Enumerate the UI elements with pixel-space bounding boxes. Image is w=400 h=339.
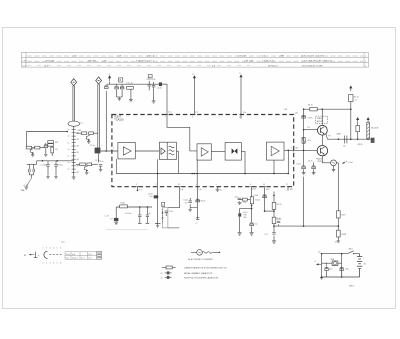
TA arrow input (316, 263, 319, 265)
connector J2 shielded pair (97, 84, 99, 148)
bottom pin tick x251.6 (250, 186, 252, 188)
capacitor C103 (153, 82, 155, 85)
pin 11 tick (240, 114, 242, 116)
resistor R126 on branch (243, 198, 248, 201)
equalizer block A2 (159, 142, 176, 159)
capacitor C141 (272, 233, 275, 235)
wire A1 to A2 (135, 150, 159, 152)
output amp block A5 (266, 142, 284, 160)
svg-text:1.uv: 1.uv (195, 112, 198, 114)
capacitor C205 (45, 143, 47, 145)
wire drop to C121 (115, 207, 117, 218)
switch TA-4 blade (347, 251, 353, 254)
test point B box (119, 78, 123, 82)
svg-text:+R.n: +R.n (235, 196, 239, 198)
wire base TS1 (304, 129, 318, 131)
svg-text:ta-9: ta-9 (61, 241, 64, 244)
branch wire w1 (239, 199, 250, 201)
wire pin6 drop (251, 187, 253, 223)
svg-text:4?: 4? (335, 241, 337, 243)
wire A2 bottom to pin 2 (157, 159, 159, 187)
svg-text:2R-2.5uH: 2R-2.5uH (371, 128, 379, 130)
wire pin4 drop (196, 187, 198, 220)
svg-text:C.R75: C.R75 (308, 118, 313, 120)
svg-text:C4.7u: C4.7u (296, 164, 301, 166)
svg-text:10: 10 (263, 184, 265, 186)
svg-text:4.5 +15: 4.5 +15 (126, 82, 132, 84)
connector pinout digits top (43, 248, 62, 250)
svg-text:R1.25: R1.25 (255, 200, 260, 202)
L.Out arrow (342, 162, 345, 164)
svg-text:4u: 4u (149, 213, 151, 215)
bottom pin tick x179.4 (178, 186, 180, 188)
svg-text:100u: 100u (329, 269, 333, 271)
wire output node down (337, 163, 339, 211)
svg-text:1.1u: 1.1u (168, 112, 172, 114)
ground TMA (31, 175, 33, 178)
tracking adjust dashed label box (316, 116, 328, 123)
fold line (106, 229, 148, 231)
connector J1 diamond (71, 79, 77, 86)
wire TS1 collector up (321, 109, 323, 125)
svg-text:A: A (24, 253, 26, 257)
svg-text:+u: +u (239, 73, 241, 75)
capacitor C175 polarized (302, 115, 306, 118)
pin 1 tick (111, 150, 113, 152)
svg-text:7.1u: 7.1u (243, 112, 247, 114)
capacitor C127 (189, 201, 192, 203)
svg-text:2u: 2u (192, 74, 194, 76)
wire bias rail (37, 160, 74, 162)
svg-text:C1.44: C1.44 (254, 195, 258, 197)
test point C box (148, 75, 152, 78)
ground below C103 (152, 101, 156, 103)
svg-text:4.8 R8.25.27: 4.8 R8.25.27 (262, 61, 275, 63)
capacitor C123 polarized (154, 195, 158, 198)
svg-text:1u: 1u (68, 169, 70, 171)
wire top cluster down-feed (105, 91, 107, 151)
wire diode to pin 7 drop (162, 84, 167, 114)
svg-text:3: 3 (50, 248, 51, 250)
parts table row 2 text (27, 60, 363, 62)
svg-text:C+1.50u: C+1.50u (125, 213, 131, 215)
svg-text:3: 3 (50, 263, 51, 265)
capacitor C161 elco (326, 263, 328, 267)
switch letter box R (162, 202, 165, 206)
cable grommet ellipse (68, 121, 80, 126)
svg-text:2.7x: 2.7x (307, 127, 310, 129)
svg-text:C102 C103: C102 C103 (146, 79, 155, 81)
resistor R213 (89, 132, 94, 135)
diode GR101 (159, 82, 162, 86)
svg-text:TCA150: TCA150 (114, 119, 124, 122)
pin 9 tick (193, 114, 195, 116)
wire A2 to IC top (193, 81, 195, 114)
ground battery circuit (320, 278, 323, 280)
svg-text:4: 4 (53, 263, 54, 265)
supply arrow A4 (350, 86, 352, 91)
resistor R17W (336, 230, 340, 237)
svg-text:1.0: 1.0 (80, 122, 82, 124)
svg-text:+7: +7 (195, 223, 197, 225)
resistor R171 (336, 211, 340, 218)
svg-text:1: 1 (43, 263, 44, 265)
svg-text:1: 1 (43, 248, 44, 250)
svg-text:u.n: u.n (355, 100, 357, 102)
transistor TS202 (84, 166, 88, 171)
svg-text:2: 2 (156, 184, 157, 186)
svg-text:2: 2 (46, 248, 47, 250)
resistor R205 (48, 141, 54, 144)
svg-text:13: 13 (178, 184, 180, 186)
svg-text:4R2: 4R2 (266, 189, 269, 191)
svg-text:FLAT FOIL POLYESTER CAPACITOR: FLAT FOIL POLYESTER CAPACITOR (184, 276, 219, 279)
svg-text:10u: 10u (343, 145, 346, 147)
wire top cluster bus (106, 83, 166, 85)
svg-text:C1.4u: C1.4u (157, 88, 162, 90)
resistor R207 (51, 145, 53, 148)
electronic counter pickup circle (331, 160, 337, 166)
capacitor C477 elco A (303, 164, 305, 167)
capacitor C124 (165, 211, 168, 213)
wire pin11 stub (240, 115, 242, 119)
svg-text:C4R3: C4R3 (336, 134, 340, 136)
svg-text:1R1: 1R1 (290, 189, 293, 191)
svg-text:7.8: 7.8 (110, 219, 112, 221)
wire A5 output to pin8 (284, 149, 294, 151)
supply arrow A5 (357, 118, 359, 122)
ground below C107 C108 (117, 96, 123, 98)
cap bottom bars (138, 222, 142, 224)
wire bias column lower (303, 177, 305, 227)
svg-text:4.5R2.4R1 1.75 1.2: 4.5R2.4R1 1.75 1.2 (136, 61, 155, 63)
svg-text:12W C: 12W C (349, 285, 355, 287)
svg-text:7.4: 7.4 (139, 189, 141, 191)
capacitor C203 pair (27, 163, 37, 165)
battery B1 (357, 254, 362, 277)
svg-text:(R6.3): (R6.3) (358, 144, 363, 146)
connector pin table (65, 252, 97, 259)
svg-text:6: 6 (60, 263, 61, 265)
svg-text:2: 2 (46, 263, 47, 265)
svg-text:1+.75: 1+.75 (105, 216, 109, 218)
wire pin10 drop (264, 187, 266, 211)
svg-text:u.84 u.5: u.84 u.5 (147, 55, 155, 57)
wire link 264-274 (265, 210, 274, 212)
svg-text:2u.2u.2: 2u.2u.2 (72, 258, 78, 260)
capacitor C4R3 series (345, 136, 347, 144)
wire C136 to ground (239, 217, 241, 233)
wire R171 to node (337, 218, 339, 230)
wire C101 to pin 1 (100, 150, 118, 152)
svg-text:1.7.1: 1.7.1 (81, 258, 85, 260)
svg-text:CARBON RESISTOR 5% E6 SERIES: CARBON RESISTOR 5% E6 SERIES CR25 1% (184, 267, 227, 270)
wire TS1 emitter diagonal (326, 134, 328, 139)
capacitor C138 (263, 195, 267, 198)
capacitor C162 elco (340, 268, 344, 271)
pin5 ground (217, 187, 219, 189)
ground TS202 (85, 171, 87, 173)
connector pinout digits bottom (43, 263, 62, 265)
svg-text:1.4x: 1.4x (198, 189, 201, 191)
svg-text:1u: 1u (68, 136, 70, 138)
svg-text:C1.4.2: C1.4.2 (243, 212, 248, 214)
capacitor C101 polarized input (95, 148, 101, 154)
resistor R212 (82, 132, 87, 135)
svg-text:5: 5 (57, 248, 58, 250)
svg-text:2|8: 2|8 (295, 147, 297, 149)
transistor TS1 (318, 125, 328, 135)
resistor R204 (35, 146, 40, 149)
capacitor C137 polarized elco (250, 223, 254, 226)
svg-text:1.2F: 1.2F (22, 61, 27, 63)
battery circuit bottom wire (322, 276, 360, 278)
capacitor C140 (277, 221, 280, 223)
svg-text:1.88 1.4R: 1.88 1.4R (244, 61, 254, 63)
resistor R120 (120, 205, 128, 208)
svg-text:C1.1u: C1.1u (90, 145, 95, 147)
capacitor C128 (196, 218, 199, 220)
transistor TS2 (317, 146, 327, 156)
svg-text:1u: 1u (68, 129, 70, 131)
resistor R63 blob (371, 138, 375, 143)
svg-text:u4R3.4R6: u4R3.4R6 (45, 61, 55, 63)
supply arrow A2 (193, 76, 195, 81)
svg-text:7: 7 (165, 117, 166, 119)
wire motor to junction (338, 262, 342, 264)
wire into TS203 stage (76, 132, 81, 134)
bottom pin tick x217.5 (216, 186, 218, 188)
capacitor C131 (139, 207, 141, 215)
ground below C121 (115, 220, 117, 223)
wire pin13 drop (168, 187, 180, 208)
ground at TS201 emitter (31, 153, 33, 154)
svg-text:4R7.25.R8 5R.77.2R8: 4R7.25.R8 5R.77.2R8 (302, 65, 323, 67)
capacitor C477 elco B (313, 162, 315, 166)
svg-text:1.03: 1.03 (284, 109, 288, 111)
svg-text:TA-4: TA-4 (349, 247, 353, 250)
wire A4 output drop (241, 151, 245, 173)
capacitor C216 (55, 161, 57, 164)
diode GR640 (302, 138, 305, 144)
capacitor C106 (105, 86, 109, 89)
svg-text:C1.50u: C1.50u (57, 164, 63, 166)
svg-text:1u: 1u (68, 142, 70, 144)
resistor R133 (272, 202, 276, 209)
ground below counter circle (333, 166, 335, 170)
limiter block A4 (225, 143, 241, 161)
svg-text:1.3x: 1.3x (180, 189, 183, 191)
ground below R17W (337, 237, 339, 241)
svg-text:R17W: R17W (341, 234, 346, 236)
resistor R211 (87, 163, 92, 166)
ground below switch ladder (73, 176, 75, 177)
wire switch to battery (354, 253, 360, 255)
svg-text:+u: +u (108, 74, 110, 76)
resistor R180 (356, 126, 360, 132)
svg-text:u4.7 u2.5 u7.5 +4.1 4.85: u4.7 u2.5 u7.5 +4.1 4.85 (301, 55, 324, 57)
connector J1 shielded pair (72, 86, 74, 121)
supply arrow A1 (109, 76, 111, 82)
wire A3 to A4 (211, 151, 225, 153)
wire to TS202 stage (76, 163, 79, 165)
wire pin2 drop (157, 187, 159, 224)
diode arrow on pin6 line (251, 205, 253, 207)
svg-text:P6: P6 (328, 135, 330, 137)
output rail wire (328, 138, 372, 140)
svg-text:5: 5 (57, 263, 58, 265)
capacitor C132 (146, 207, 148, 215)
inductor L1 hatched (367, 120, 369, 123)
capacitor C107 (116, 84, 118, 85)
wire R172 to node (273, 224, 275, 233)
legend resistor symbol (162, 267, 166, 269)
svg-text:R1.4x: R1.4x (201, 200, 206, 202)
amplifier block A3 (197, 144, 211, 160)
svg-text:1.2u: 1.2u (88, 254, 91, 256)
supply rail wire (304, 108, 351, 110)
svg-text:4R7: 4R7 (55, 142, 58, 144)
capacitor C108 (121, 84, 123, 85)
transistor TS201 (30, 149, 33, 154)
svg-text:2.8R: 2.8R (280, 55, 285, 57)
switch SK2 pole (162, 209, 164, 224)
svg-text:2.2: 2.2 (318, 252, 320, 254)
parts table border (22, 53, 369, 68)
supply arrow A6 (367, 118, 369, 122)
svg-text:1.2R.2: 1.2R.2 (251, 189, 256, 191)
transistor TS203 (86, 135, 90, 140)
bottom pin tick x264.6 (263, 186, 265, 188)
svg-text:0.7u: 0.7u (100, 161, 104, 163)
wire A2 output drop (176, 150, 178, 152)
wire A3 to IC top (240, 80, 242, 115)
svg-text:L.Out: L.Out (348, 161, 353, 164)
capacitor C136 polarized (238, 213, 241, 216)
preamp block A1 (118, 143, 135, 159)
svg-text:1.45 2.47: 1.45 2.47 (238, 55, 248, 57)
branch to C136 (240, 209, 252, 214)
resistor R206 (48, 144, 54, 147)
wire TS1-TS2 link (321, 135, 323, 145)
svg-text:6: 6 (250, 184, 251, 186)
svg-text:R.n: R.n (243, 202, 246, 204)
svg-text:+1.7x: +1.7x (307, 140, 311, 142)
svg-text:R1.75: R1.75 (354, 96, 359, 98)
svg-text:1: 1 (113, 148, 114, 150)
long wire node to R171 (274, 225, 338, 227)
resistor R106 (127, 86, 134, 89)
svg-text:12: 12 (286, 184, 288, 186)
svg-text:8: 8 (291, 148, 292, 150)
resistor R125 (250, 197, 253, 204)
svg-text:METAL CERAMIC CAPACITOR: METAL CERAMIC CAPACITOR (184, 272, 213, 275)
svg-text:C4.7u: C4.7u (308, 160, 313, 162)
svg-text:4R 88.25.7: 4R 88.25.7 (268, 65, 279, 67)
svg-text:5.1u: 5.1u (66, 258, 69, 260)
svg-text:55: 55 (161, 273, 163, 275)
svg-text:R1.8x: R1.8x (121, 203, 126, 205)
wire A5 bottom drop (273, 160, 275, 173)
ground below C141 (272, 241, 276, 243)
record/play switch ladder SK1 (73, 126, 75, 175)
wire TS2 emitter to counter (322, 156, 330, 163)
pin3 stub and dot (137, 187, 139, 190)
battery circuit top wire (322, 253, 348, 255)
switch ladder contact labels (68, 129, 80, 174)
svg-text:4: 4 (53, 248, 54, 250)
svg-text:220u: 220u (345, 269, 349, 271)
wire A3 bottom to pin 4 (196, 159, 198, 187)
capacitor C126 (196, 199, 200, 202)
battery circuit left wire (321, 254, 323, 277)
wire R175 column to rail (350, 109, 352, 139)
svg-text:1u: 1u (68, 156, 70, 158)
svg-text:3: 3 (136, 184, 137, 186)
ground below C135 (238, 202, 242, 204)
svg-text:C+1500: C+1500 (41, 164, 47, 166)
ground below R106 (130, 89, 132, 99)
pin 8 tick (293, 149, 295, 151)
resistor R174 (310, 108, 317, 111)
wire stage to C218 (92, 163, 98, 165)
wire feedback from output node (287, 150, 289, 173)
svg-text:6: 6 (60, 248, 61, 250)
ground at C205 (44, 154, 47, 156)
electronic counter legend symbol (191, 251, 197, 253)
svg-text:C1.4u: C1.4u (276, 218, 280, 220)
capacitor C135 (238, 198, 241, 200)
svg-text:C1.7: C1.7 (265, 234, 268, 236)
pin number labels (113, 117, 292, 186)
resistor R172 (273, 209, 275, 217)
ground below C137 (250, 233, 254, 235)
svg-text:ELECTRONIC COUNTER: ELECTRONIC COUNTER (188, 259, 213, 261)
capacitor C218 (99, 165, 102, 167)
wire C127 link (190, 207, 198, 209)
capacitor C102 (148, 81, 150, 84)
svg-text:1.0x: 1.0x (295, 113, 298, 115)
resistor R210 (80, 163, 86, 166)
svg-text:ju-4: ju-4 (71, 254, 75, 256)
ground TS203 (87, 140, 89, 141)
svg-text:C1.4u: C1.4u (183, 200, 188, 202)
svg-text:1u: 1u (220, 190, 222, 192)
wire counter to output node (336, 162, 338, 164)
svg-text:11: 11 (239, 117, 241, 119)
capacitor C215 (47, 161, 49, 164)
lower shield wire (168, 227, 180, 229)
svg-text:10u: 10u (254, 224, 257, 226)
wire R133 stub (273, 192, 275, 203)
resistor R202 (27, 147, 45, 149)
ground below C127 (188, 209, 191, 211)
internal bottom rail (116, 173, 288, 175)
wire stage to J2 line (93, 132, 97, 134)
wire A1 feedback drop (115, 159, 117, 174)
svg-text:7.8.25.2R8.4R5 5.87.7.2R8 2.: 7.8.25.2R8.4R5 5.87.7.2R8 2.85 (302, 61, 333, 63)
svg-text:1u: 1u (68, 162, 70, 164)
connector J2 diamond (96, 77, 102, 84)
parts table row 1 text (27, 55, 363, 57)
connector table notes box (97, 251, 102, 259)
supply arrow A3 (240, 75, 242, 80)
wire left bias column (303, 109, 305, 165)
svg-text:R1.33: R1.33 (277, 204, 282, 206)
IC1 internal dashed box (112, 115, 294, 187)
svg-text:1.7uu: 1.7uu (66, 254, 70, 256)
shield bracket box (162, 208, 168, 228)
